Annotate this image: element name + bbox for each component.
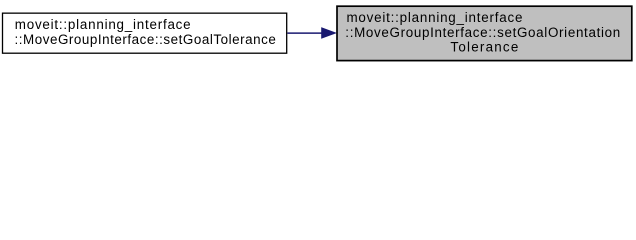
svg-text:Tolerance: Tolerance [450,39,518,54]
svg-text:moveit::planning_interface: moveit::planning_interface [15,17,191,32]
svg-text:moveit::planning_interface: moveit::planning_interface [347,10,523,25]
svg-text:::MoveGroupInterface::setGoalO: ::MoveGroupInterface::setGoalOrientation [345,25,620,40]
node box: caller moveit::planning_interface::MoveGroupInterface::setGoalTolerance [3,13,287,53]
arrowhead of call edge [322,28,336,38]
node box: current function setGoalOrientationTolerance (grey highlighted) [337,6,632,60]
wire: call edge from setGoalTolerance to setGoalOrientationTolerance [287,32,323,34]
svg-text:::MoveGroupInterface::setGoalT: ::MoveGroupInterface::setGoalTolerance [15,32,276,47]
